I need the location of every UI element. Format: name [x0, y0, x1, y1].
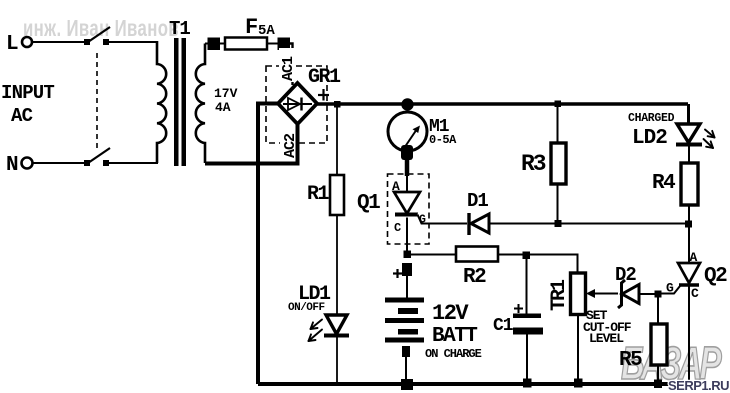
wire Q2 cathode to rail — [688, 286, 690, 384]
svg-text:ON CHARGE: ON CHARGE — [425, 347, 482, 361]
transformer T1 primary winding — [157, 41, 166, 163]
bridge inner diode glyph — [283, 98, 312, 111]
capacitor C1 — [493, 304, 543, 336]
thyristor Q1 symbol — [394, 192, 420, 215]
node R3 bottom — [555, 220, 562, 227]
node R1 top — [334, 101, 341, 108]
svg-text:D1: D1 — [467, 190, 488, 212]
ammeter M1 — [388, 112, 457, 151]
svg-text:SERP1.RU: SERP1.RU — [668, 378, 729, 393]
wire node to R5 — [657, 294, 659, 324]
svg-text:R4: R4 — [652, 172, 675, 195]
wire fuse to bridge AC1 — [290, 44, 293, 86]
wire to battery top plate — [406, 276, 408, 298]
svg-text:BATT: BATT — [432, 325, 477, 348]
label 17V 4A — [214, 86, 238, 115]
switch S1b — [84, 148, 110, 166]
wire D2 to gate node — [639, 293, 658, 295]
wire AC2 left rail (bridge left vertex down to bottom rail) — [258, 104, 278, 385]
transformer T1 core — [174, 38, 186, 166]
bridge GR1 dashed box — [266, 66, 327, 143]
thyristor Q2 symbol — [678, 263, 700, 285]
svg-text:AC1: AC1 — [280, 56, 297, 81]
LED LD2 symbol — [676, 124, 702, 145]
wire R3 to D1 line — [557, 184, 559, 221]
LED LD1 labels — [288, 283, 331, 314]
node R3 top — [555, 101, 562, 108]
svg-text:R3: R3 — [521, 151, 546, 177]
wire bus to R1 — [336, 106, 338, 175]
wire M1 to Q1 — [405, 158, 410, 193]
resistor R4 — [652, 163, 698, 205]
node M1 top — [401, 98, 413, 110]
svg-text:12V: 12V — [432, 301, 469, 326]
wire bus to R3 — [557, 106, 559, 143]
switch gang dashed link — [96, 53, 98, 148]
wire N to switch — [33, 162, 86, 164]
svg-text:ON/OFF: ON/OFF — [288, 302, 325, 314]
battery plus mark — [393, 269, 402, 278]
svg-text:C: C — [691, 286, 699, 301]
wire bus corner down to LD2 — [687, 104, 690, 124]
svg-text:CHARGED: CHARGED — [628, 112, 675, 125]
svg-text:L: L — [6, 33, 19, 56]
wire LD2 to R4 — [688, 146, 690, 163]
label AC2 (rotated) — [280, 126, 299, 160]
wire R1 to LD1 — [336, 215, 338, 384]
wire transformer secondary bottom — [205, 162, 299, 166]
gate wire of Q2 — [658, 285, 681, 294]
wire R5 to bottom rail — [657, 365, 659, 382]
svg-text:Q1: Q1 — [357, 192, 380, 215]
wire node to C1 — [526, 255, 528, 314]
fuse F 5A — [208, 15, 291, 50]
label SET CUT-OFF LEVEL — [583, 308, 632, 346]
resistor R1 — [307, 175, 344, 215]
bridge rectifier GR1 diamond — [278, 83, 317, 124]
wire switch to transformer primary bottom — [106, 162, 158, 164]
svg-text:G: G — [666, 281, 674, 296]
main positive bus wire — [317, 102, 688, 105]
svg-text:N: N — [6, 154, 19, 177]
label AC1 (rotated) — [279, 48, 297, 82]
svg-text:C: C — [394, 221, 401, 235]
resistor R3 — [521, 143, 566, 184]
wire R2 to TR1 top corner — [498, 255, 578, 274]
LED LD2 light arrows — [704, 130, 715, 149]
wire TR1 to bottom rail — [577, 315, 579, 383]
transformer T1 secondary winding — [196, 44, 205, 164]
wire D1 to R4/Q2 column — [489, 223, 687, 225]
wire secondary top to fuse — [205, 43, 210, 45]
svg-text:TR1: TR1 — [548, 279, 571, 311]
capacitor C1 node on R2 wire — [523, 252, 531, 260]
battery bottom stub — [402, 346, 410, 357]
wire junction to R2 — [407, 254, 456, 256]
svg-text:0-5A: 0-5A — [429, 133, 457, 147]
node D2/R5/gate junction — [655, 291, 662, 298]
wire L to switch — [32, 41, 86, 43]
svg-text:GR1: GR1 — [308, 66, 341, 89]
label 12V BATT ON CHARGE — [425, 301, 482, 361]
svg-text:T1: T1 — [169, 18, 190, 40]
wire TR1 wiper to D2 — [594, 293, 618, 295]
wire bridge minus (bottom vertex down) — [296, 124, 300, 166]
label INPUT AC — [1, 82, 54, 127]
node R4 bottom / Q2 anode — [685, 221, 692, 228]
svg-text:D2: D2 — [615, 264, 636, 286]
node battery bottom rail — [401, 379, 413, 390]
svg-text:LEVEL: LEVEL — [589, 331, 624, 346]
wire Q2 anode — [688, 227, 690, 263]
svg-text:R2: R2 — [463, 266, 486, 289]
svg-text:LD2: LD2 — [632, 127, 667, 150]
node Q1/battery/R2 junction — [404, 251, 412, 259]
battery BATT plates — [385, 298, 424, 343]
wire battery to bottom rail — [405, 357, 407, 381]
wire switch to transformer primary top — [106, 41, 158, 43]
svg-text:инж. Иван Иванов: инж. Иван Иванов — [23, 17, 179, 42]
diode D1 — [469, 213, 489, 235]
bottom negative rail — [258, 382, 690, 386]
svg-text:R5: R5 — [619, 349, 642, 372]
svg-text:4A: 4A — [215, 100, 231, 115]
LED LD1 light arrows — [309, 320, 323, 342]
wire Q1 cathode down — [406, 218, 408, 253]
trimmer TR1 — [548, 273, 595, 315]
svg-text:Q2: Q2 — [704, 265, 727, 288]
node C1 bottom rail — [523, 379, 532, 388]
svg-text:R1: R1 — [307, 183, 330, 206]
svg-text:AC: AC — [11, 105, 33, 127]
wire R4 to D1 line — [688, 205, 690, 221]
pin label G of Q1 — [418, 214, 428, 227]
switch S1a — [84, 27, 110, 45]
plus mark at bridge output — [318, 89, 329, 101]
node TR1 bottom rail — [574, 379, 583, 388]
svg-text:17V: 17V — [214, 86, 238, 101]
diode D2 (zener) — [618, 280, 639, 308]
terminal N — [6, 154, 33, 177]
node M1 bottom — [401, 145, 413, 160]
terminal L — [6, 33, 32, 56]
LED LD1 symbol — [324, 315, 349, 336]
battery top terminal blob — [402, 263, 412, 276]
svg-text:C1: C1 — [493, 316, 514, 336]
svg-text:INPUT: INPUT — [1, 82, 54, 104]
wire C1 to bottom rail — [526, 334, 528, 382]
resistor R5 — [619, 324, 667, 372]
node R5 bottom rail — [654, 380, 662, 389]
thyristor Q1 dashed box — [388, 174, 430, 244]
gate wire of Q1 — [418, 215, 468, 224]
resistor R2 — [456, 247, 498, 290]
